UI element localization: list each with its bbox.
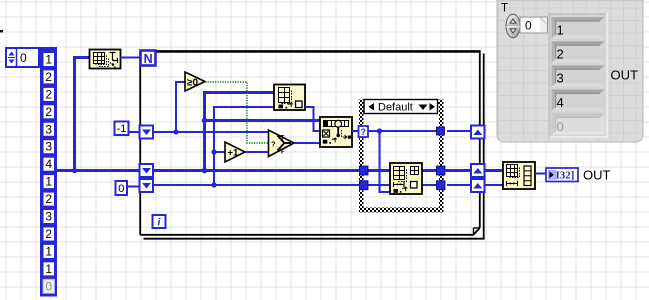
search 1D array function [320, 117, 352, 147]
select node [269, 130, 295, 157]
wire select out to search [294, 142, 320, 144]
N count terminal [141, 51, 156, 66]
svg-text:3: 3 [557, 71, 564, 86]
wire branch up to >=0 [176, 82, 185, 132]
svg-text:0: 0 [525, 19, 532, 33]
svg-text:T: T [501, 3, 508, 15]
wire 0 to SR3 [127, 186, 140, 188]
wire index array out down to search [305, 107, 320, 131]
case tunnels (solid squares) [360, 166, 369, 175]
wire ? to right tunnel with branch down [368, 130, 438, 132]
shift register SR3 left [140, 179, 154, 192]
shift register SR2 right [471, 164, 485, 177]
svg-text:≥0: ≥0 [187, 78, 198, 89]
wire SR3 across to case [153, 184, 360, 186]
svg-text:3: 3 [45, 122, 52, 136]
wire output icon to indicator [535, 173, 546, 175]
panel array element 4 [552, 90, 605, 111]
array constant element column [40, 47, 57, 297]
replace array subset function inside case [390, 163, 422, 194]
wire thin vertical branch to index array [214, 107, 274, 185]
svg-text:1: 1 [45, 244, 52, 258]
wire search out to case selector [352, 130, 359, 132]
svg-text:?: ? [361, 127, 367, 137]
shift register SR1 right [471, 126, 485, 139]
svg-text:N: N [144, 52, 153, 66]
svg-text:-1: -1 [117, 123, 127, 135]
svg-text:2: 2 [45, 227, 52, 241]
svg-text:1: 1 [45, 175, 52, 189]
constant 0 [116, 181, 128, 195]
svg-text:2: 2 [45, 87, 52, 101]
wire branch to +1 [214, 151, 225, 153]
panel array element 3 [552, 66, 605, 87]
wire +1 to select F [245, 151, 269, 153]
svg-text:4: 4 [45, 157, 52, 171]
constant -1 [115, 122, 129, 136]
front panel window fragment [497, 0, 643, 142]
wire: branch up to array size [75, 58, 90, 171]
wire: array size to N [120, 57, 140, 59]
case selector ? terminal [359, 126, 369, 137]
svg-text:Default: Default [378, 102, 413, 114]
panel array element 0 (dimmed) [552, 114, 605, 135]
I32 indicator terminal [546, 168, 578, 182]
svg-text:2: 2 [45, 70, 52, 84]
panel index display [520, 17, 548, 33]
svg-text:OUT: OUT [583, 168, 611, 183]
wires through case left tunnels [364, 169, 390, 172]
panel array element 1 [552, 17, 605, 38]
svg-text:3: 3 [45, 140, 52, 154]
svg-text:T: T [281, 136, 285, 142]
svg-text:0: 0 [45, 279, 52, 293]
wires case icon to right tunnels [422, 169, 440, 172]
case selector label [364, 100, 438, 114]
svg-text:0: 0 [118, 183, 124, 195]
array constant index display [6, 48, 39, 67]
svg-text:OUT: OUT [611, 68, 639, 83]
for loop border [140, 51, 484, 239]
wire thick branch to search array in [205, 119, 321, 122]
svg-text:+1: +1 [228, 148, 240, 159]
comparison >=0 node [185, 72, 205, 91]
wires loop to output icon [485, 169, 504, 172]
shift register SR3 right [471, 179, 485, 192]
shift register SR2 left [140, 164, 154, 177]
svg-text:F: F [281, 150, 285, 156]
stray label fragment top-left [0, 30, 3, 33]
svg-text:2: 2 [45, 192, 52, 206]
boolean wire from >=0 to select [205, 82, 269, 143]
svg-text:0: 0 [20, 51, 27, 65]
increment +1 node [225, 142, 245, 162]
wires case to right shift registers [447, 130, 471, 132]
wire thick vertical branch [205, 93, 275, 171]
svg-text:1: 1 [557, 23, 564, 38]
svg-text:3: 3 [45, 210, 52, 224]
svg-text:I32]: I32] [556, 170, 575, 182]
shift register SR1 left [140, 126, 154, 139]
i iteration terminal [153, 215, 166, 229]
array size function U1 [90, 50, 121, 69]
svg-text:1: 1 [45, 53, 52, 67]
svg-text:1: 1 [45, 262, 52, 276]
wire SR1 out across to select T input [153, 131, 269, 133]
wire -1 to SR1 [129, 131, 140, 133]
reshape array output function [503, 162, 535, 189]
panel index spinner [506, 14, 520, 38]
junction [72, 168, 77, 173]
panel array elements container [550, 13, 608, 138]
panel array element 2 [552, 41, 605, 62]
svg-text:2: 2 [557, 47, 564, 62]
svg-text:0: 0 [557, 119, 564, 134]
case structure borders [359, 100, 444, 213]
svg-text:2: 2 [45, 105, 52, 119]
index array function [274, 85, 305, 111]
wire SR2 thick across to case [153, 169, 360, 172]
svg-text:4: 4 [557, 95, 564, 110]
wire: array out (thick) to loop [57, 169, 140, 172]
svg-text:?: ? [271, 140, 276, 149]
